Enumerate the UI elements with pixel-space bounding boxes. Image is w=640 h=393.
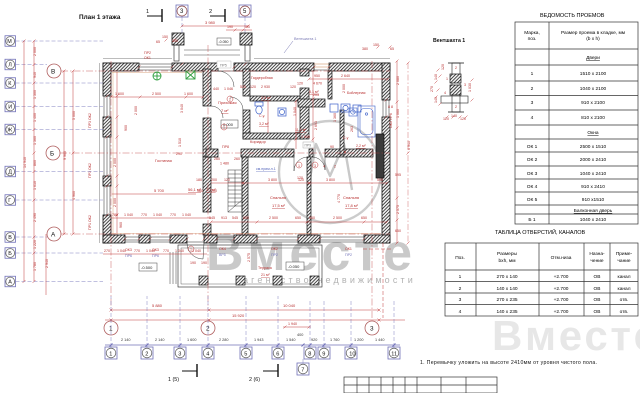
svg-text:2 500: 2 500 [333,216,342,220]
svg-text:ОВ: ОВ [594,274,601,280]
svg-text:9 960: 9 960 [63,151,67,160]
dashed red line terrace right [382,243,384,318]
svg-text:2 140: 2 140 [121,338,131,342]
svg-text:270 х 140: 270 х 140 [496,274,517,280]
svg-text:Гостиная: Гостиная [155,158,172,163]
svg-text:340: 340 [172,39,178,43]
svg-text:5 000: 5 000 [72,111,76,120]
svg-text:Окна: Окна [587,130,598,136]
svg-text:6: 6 [276,352,279,358]
svg-text:910 x 2410: 910 x 2410 [581,184,605,190]
svg-text:950: 950 [314,74,320,78]
axis line B horizontal [61,70,390,72]
svg-text:2 000: 2 000 [342,84,346,93]
svg-text:Балконная дверь: Балконная дверь [574,208,613,214]
main axis circle 1 [104,321,118,335]
living room inner dim chain [116,72,119,233]
svg-text:Поз.: Поз. [455,255,465,261]
svg-text:17,8 м²: 17,8 м² [345,203,359,208]
table TABLICA OTVERSTIY [445,243,638,316]
red ticks at wall openings [106,39,388,241]
window OK1 top wall [139,64,172,70]
stairs [228,170,242,212]
wall top exterior [103,63,390,71]
windows left wall [104,96,110,215]
svg-text:650: 650 [395,229,401,233]
svg-text:ВЕДОМОСТЬ ПРОЕМОВ: ВЕДОМОСТЬ ПРОЕМОВ [540,13,605,19]
svg-text:С.у.: С.у. [259,114,265,118]
dim 1940 [283,322,311,329]
svg-text:2: 2 [455,105,457,109]
svg-text:ТАБЛИЦА ОТВЕРСТИЙ, КАНАЛОВ: ТАБЛИЦА ОТВЕРСТИЙ, КАНАЛОВ [495,228,585,236]
interior wall stairhall east [242,157,248,235]
svg-text:4: 4 [459,309,462,315]
small numbered circles [188,96,318,252]
porch column left axis3 [172,33,184,45]
sink WC1 [278,108,286,116]
svg-text:3: 3 [459,297,462,303]
svg-text:3: 3 [178,352,181,358]
svg-text:-0.050: -0.050 [288,264,300,269]
interior wall mid vertical [300,69,309,139]
svg-text:65: 65 [390,47,394,51]
svg-text:140: 140 [434,97,438,103]
svg-text:+2.700: +2.700 [554,297,569,303]
svg-text:поз.: поз. [528,37,537,42]
svg-text:1 600: 1 600 [184,92,193,96]
svg-text:2 575: 2 575 [247,253,251,262]
interior wall bedroom divider [307,157,311,235]
svg-text:ОК 2: ОК 2 [527,157,538,163]
extra vertical chains [295,101,297,149]
svg-text:1 040: 1 040 [182,213,191,217]
svg-text:1 400: 1 400 [33,113,37,122]
svg-text:2000 x 2410: 2000 x 2410 [580,157,607,163]
svg-text:3: 3 [314,164,316,168]
svg-text:1 300: 1 300 [33,90,37,99]
svg-text:290: 290 [176,152,182,156]
svg-text:140: 140 [434,74,438,80]
svg-text:Размеры: Размеры [497,251,517,257]
svg-text:120: 120 [250,85,256,89]
svg-text:5: 5 [244,352,247,358]
svg-text:А: А [51,232,56,239]
svg-text:270: 270 [104,249,110,253]
living room dim [110,188,217,194]
svg-text:ПР2: ПР2 [271,253,278,257]
svg-text:120: 120 [297,82,303,86]
svg-text:1 940: 1 940 [288,322,297,326]
svg-text:263: 263 [350,126,354,132]
svg-text:3: 3 [464,83,466,87]
svg-text:1 040: 1 040 [175,249,184,253]
main axis circle 3 [365,321,379,335]
svg-text:7 м²: 7 м² [221,108,229,113]
svg-text:ПР5: ПР5 [220,64,227,68]
svg-text:2: 2 [459,286,462,292]
svg-text:см.прим.л.1: см.прим.л.1 [256,167,276,171]
svg-text:2 693: 2 693 [314,121,318,130]
svg-text:140 х 140: 140 х 140 [496,286,517,292]
svg-text:1 440: 1 440 [375,338,385,342]
bottom dashed leaders [111,296,394,363]
svg-text:270 х 235: 270 х 235 [496,297,517,303]
svg-text:2 940: 2 940 [45,259,49,268]
svg-text:1 600: 1 600 [187,338,197,342]
boiler dims [297,74,390,93]
left dim texts rotated [23,47,76,271]
svg-text:канал: канал [618,287,631,292]
svg-text:2: 2 [334,165,336,169]
svg-text:Спальня: Спальня [270,195,286,200]
svg-text:1040 x 2100: 1040 x 2100 [580,86,607,92]
svg-text:380: 380 [362,47,368,51]
svg-text:180: 180 [197,189,203,193]
svg-text:канал: канал [618,275,631,280]
svg-text:Отм.низа: Отм.низа [551,255,572,261]
svg-text:10 040: 10 040 [283,303,296,308]
axis line 2 vertical [207,45,209,308]
svg-text:1 540: 1 540 [286,338,296,342]
svg-text:595: 595 [377,178,383,182]
svg-text:2 500: 2 500 [152,92,161,96]
left axis dashed leaders [16,41,104,282]
svg-text:ОВ: ОВ [594,309,601,315]
svg-text:140: 140 [451,114,457,118]
svg-text:3: 3 [370,326,374,333]
svg-text:595: 595 [395,173,401,177]
svg-text:150: 150 [373,43,379,47]
inner row above bottom wall [111,213,211,218]
svg-text:260: 260 [234,157,240,161]
svg-text:ПР3 ОК2: ПР3 ОК2 [88,163,92,178]
svg-text:Вентшахта 1: Вентшахта 1 [433,38,465,44]
svg-text:3 800: 3 800 [268,178,277,182]
svg-text:200: 200 [211,189,217,193]
svg-text:8 8: 8 8 [388,105,393,109]
svg-text:1 940: 1 940 [301,135,310,139]
svg-text:ПР2: ПР2 [345,253,352,257]
svg-text:+2.700: +2.700 [554,274,569,280]
svg-text:770: 770 [141,213,147,217]
bottom axis squares [105,347,400,375]
svg-text:200: 200 [211,178,217,182]
svg-text:А: А [8,280,12,286]
svg-text:11: 11 [391,352,397,358]
terrace side steps [170,252,176,284]
svg-text:ПР2: ПР2 [144,51,151,55]
svg-text:1: 1 [109,352,112,358]
bottom dim line 5880/10040 [110,303,381,312]
svg-text:920: 920 [311,338,317,342]
svg-text:Д: Д [8,170,12,176]
svg-text:650: 650 [295,216,301,220]
svg-text:Б: Б [50,151,54,158]
porch column right axis5 [240,33,252,45]
svg-text:Назна-: Назна- [589,251,605,257]
door label PR5 [217,61,231,68]
interior wall hallway vertical [243,69,250,139]
svg-text:1 610: 1 610 [33,181,37,190]
svg-text:ОК 1: ОК 1 [527,144,538,150]
svg-text:3: 3 [531,100,534,106]
svg-text:4 770: 4 770 [337,194,341,203]
row below bottom wall [103,249,207,254]
svg-text:М: М [7,39,12,45]
svg-text:Б 1: Б 1 [528,217,535,223]
outer finish lines [100,59,391,244]
svg-text:3 800: 3 800 [326,178,335,182]
svg-text:120: 120 [460,117,466,121]
svg-text:В: В [8,235,12,241]
svg-text:3,2 м²: 3,2 м² [259,122,269,126]
svg-text:140 х 235: 140 х 235 [496,309,517,315]
svg-text:2: 2 [531,86,534,92]
svg-text:Гардеробная: Гардеробная [251,76,273,80]
svg-text:1 040: 1 040 [293,107,297,116]
interior dim row top-left [110,92,205,99]
svg-text:1 220: 1 220 [33,240,37,249]
porch side walls [174,45,179,61]
title block grid [344,377,497,393]
svg-text:bxh, мм: bxh, мм [499,258,516,264]
svg-text:2: 2 [145,352,148,358]
terrace outline [178,245,322,287]
table VEDOMOST PROEMOV [515,22,638,224]
svg-text:150: 150 [162,35,168,39]
svg-text:15 920: 15 920 [232,313,245,318]
interior wall wc south [243,133,303,139]
terrace columns [199,276,319,285]
svg-text:2: 2 [455,66,457,70]
svg-text:(b x h): (b x h) [586,36,600,42]
left dim chain lines [24,41,73,295]
svg-text:1 480: 1 480 [220,162,229,166]
svg-text:910 x1510: 910 x1510 [582,197,605,203]
vent shaft block [376,134,384,178]
svg-text:Размер проема в кладке, мм: Размер проема в кладке, мм [561,30,625,36]
main axis circle A [47,227,61,241]
door PR5 gap top wall [218,70,234,72]
svg-text:4: 4 [444,91,446,95]
svg-text:65: 65 [156,40,160,44]
svg-text:Марка,: Марка, [524,30,540,36]
svg-text:ОК1: ОК1 [345,247,352,251]
svg-text:ОВ: ОВ [594,297,601,303]
main axis circle 2 [201,321,215,335]
svg-text:1040 x 2410: 1040 x 2410 [580,171,607,177]
level box 0.000 [221,120,238,128]
svg-text:1: 1 [190,248,192,252]
svg-text:Ж: Ж [7,128,12,134]
section mark 1 top [146,9,162,22]
level box -0.050 terrace [286,262,304,270]
section mark 2(6) bottom [249,364,278,383]
svg-text:2,2 м²: 2,2 м² [356,144,366,148]
svg-text:2 000: 2 000 [113,158,117,167]
svg-text:9: 9 [322,352,325,358]
svg-text:900: 900 [124,125,128,131]
svg-text:440: 440 [213,87,219,91]
svg-text:2 000: 2 000 [33,47,37,56]
watermark ring logo [279,121,381,223]
dimension 3 980 top [181,20,250,28]
svg-text:ПР3 ОК2: ПР3 ОК2 [88,113,92,128]
svg-text:650: 650 [243,216,249,220]
interior wall wardrobe divider [250,96,303,101]
svg-text:2: 2 [229,98,231,102]
svg-text:ВР5: ВР5 [219,253,226,257]
kitchen stove green [153,72,161,80]
svg-text:1: 1 [298,164,300,168]
svg-text:1: 1 [223,126,225,130]
svg-text:Л: Л [8,63,12,69]
svg-text:120: 120 [298,178,304,182]
interior wall corridor south [206,149,373,157]
svg-text:Коридор: Коридор [250,139,267,144]
svg-text:ОК 4: ОК 4 [527,184,538,190]
svg-text:8: 8 [308,352,311,358]
svg-text:190: 190 [201,261,207,265]
svg-text:120: 120 [441,64,445,70]
kitchen sink green [186,71,195,79]
svg-text:2500 x 1510: 2500 x 1510 [580,144,607,150]
svg-text:Спальня: Спальня [343,195,359,200]
wall left exterior [103,63,111,243]
svg-text:2: 2 [209,9,212,15]
svg-text:190: 190 [190,261,196,265]
svg-text:В: В [51,69,55,76]
svg-text:400: 400 [297,333,303,337]
svg-text:650: 650 [309,216,315,220]
svg-text:120: 120 [443,117,449,121]
svg-text:ПР1 ОК2: ПР1 ОК2 [88,215,92,230]
svg-text:270: 270 [430,86,434,92]
window labels bottom [125,247,352,258]
svg-text:770: 770 [170,213,176,217]
svg-text:4: 4 [206,352,209,358]
svg-text:1 046: 1 046 [224,87,233,91]
svg-text:190: 190 [227,25,233,29]
level box -0.050 porch [217,38,231,45]
svg-text:3 980: 3 980 [205,20,216,25]
svg-text:17,5 м²: 17,5 м² [272,203,286,208]
svg-text:+2.700: +2.700 [554,286,569,292]
svg-text:8,1 м²: 8,1 м² [309,90,319,94]
svg-text:1. Перемычку уложить на высоте: 1. Перемычку уложить на высоте 2410мм от… [420,360,597,366]
svg-text:3,5 м²: 3,5 м² [261,96,271,100]
axis line A horizontal [61,233,390,235]
bottom secondary chain [105,333,400,347]
svg-text:ОК4: ОК4 [219,247,226,251]
svg-text:ОК2: ОК2 [271,247,278,251]
level box -0.500 [139,263,157,271]
svg-text:2 930: 2 930 [261,85,270,89]
svg-text:Вместе: Вместе [492,312,640,359]
svg-text:1 780: 1 780 [33,262,37,271]
finish layer lines orange [112,72,381,234]
left axis letter squares [5,36,16,287]
interior wall boiler south [298,99,325,107]
svg-text:14 940: 14 940 [23,157,27,168]
svg-text:2 000: 2 000 [113,198,117,207]
svg-text:4: 4 [323,165,325,169]
boiler equipment [330,104,361,112]
svg-text:4 960: 4 960 [72,191,76,200]
interior wall bath west [328,71,344,155]
svg-text:2 640: 2 640 [341,74,350,78]
svg-text:21 м²: 21 м² [261,273,270,277]
svg-text:2 500: 2 500 [269,216,278,220]
svg-text:4 670: 4 670 [313,82,322,86]
svg-text:ОК5 ПР6: ОК5 ПР6 [389,113,393,128]
svg-text:7: 7 [301,368,304,374]
svg-text:1 040: 1 040 [153,213,162,217]
svg-text:2 (6): 2 (6) [249,377,260,383]
svg-text:отв.: отв. [620,310,629,315]
svg-text:+2.700: +2.700 [554,309,569,315]
svg-text:520: 520 [240,85,246,89]
door swing arcs [187,71,325,259]
svg-text:2 490: 2 490 [33,213,37,222]
ventshaft detail drawing [430,63,474,121]
wall right exterior [382,63,390,243]
svg-text:960: 960 [119,222,123,228]
wall bottom exterior [103,235,390,243]
svg-text:3 040: 3 040 [180,104,184,113]
porch steps [184,50,240,55]
svg-text:-0.050: -0.050 [219,40,229,44]
svg-text:770: 770 [163,249,169,253]
svg-text:810 x 2100: 810 x 2100 [581,115,605,121]
svg-text:Терраса: Терраса [258,266,272,270]
svg-text:2 575: 2 575 [396,205,400,214]
svg-text:1 760: 1 760 [330,338,340,342]
svg-text:Бойлерная: Бойлерная [347,91,365,95]
axis line 1 vertical [110,61,112,308]
svg-text:910 x 2100: 910 x 2100 [581,100,605,106]
svg-text:190: 190 [244,25,250,29]
svg-text:ОК3: ОК3 [152,248,159,252]
svg-text:940: 940 [33,72,37,78]
axis line B2 horizontal [60,152,390,154]
svg-text:ПР6: ПР6 [125,254,132,258]
main axis circle B [46,146,60,160]
svg-text:2 080: 2 080 [396,76,400,85]
bottom dim line 15920 [105,313,405,322]
svg-text:ОВ: ОВ [594,286,601,292]
svg-text:11,2 м²: 11,2 м² [295,128,307,132]
svg-text:ПР8: ПР8 [222,145,229,149]
svg-text:860: 860 [33,160,37,166]
svg-text:Г: Г [8,198,11,204]
main axis circle V [47,64,61,78]
svg-text:1: 1 [146,9,149,15]
bathtub [349,106,375,137]
svg-text:ПР6: ПР6 [152,254,159,258]
svg-text:180: 180 [196,178,202,182]
svg-text:1 360: 1 360 [333,113,337,122]
svg-text:2 280: 2 280 [219,338,229,342]
svg-text:ОК 3: ОК 3 [527,171,538,177]
right exterior dims [395,60,401,245]
bedroom dims row [209,216,389,224]
svg-text:И: И [8,105,12,111]
svg-text:1040 x 2410: 1040 x 2410 [580,217,607,223]
svg-text:770: 770 [134,249,140,253]
svg-text:Б: Б [8,251,12,257]
svg-text:6 940: 6 940 [407,141,411,150]
